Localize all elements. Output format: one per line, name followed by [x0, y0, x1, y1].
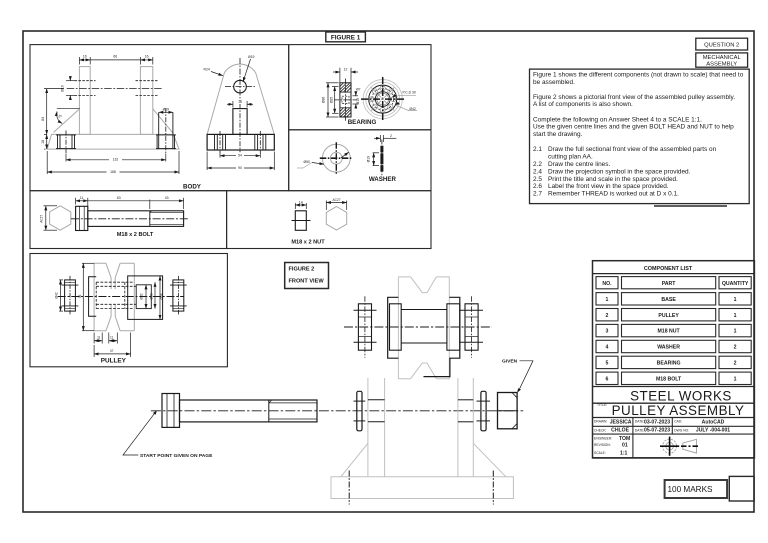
svg-text:01: 01	[622, 442, 628, 448]
svg-text:TITLE:: TITLE:	[597, 403, 607, 407]
svg-text:NO.: NO.	[602, 281, 612, 287]
row 4	[596, 340, 618, 352]
bottom dim 132	[66, 154, 166, 162]
crosshair	[225, 86, 255, 88]
dim 90	[207, 152, 274, 171]
svg-text:START POINT GIVEN ON PAGE: START POINT GIVEN ON PAGE	[140, 453, 213, 459]
svg-text:132: 132	[113, 158, 119, 162]
dia25 dim	[332, 87, 339, 114]
bearing side view outer rect	[340, 83, 351, 117]
post hole lines	[368, 400, 473, 422]
dia42 dim left	[59, 280, 63, 311]
svg-text:2.5: 2.5	[533, 176, 542, 183]
svg-text:P.C.D 30: P.C.D 30	[403, 90, 416, 94]
bolt head side	[76, 206, 88, 230]
main centre line	[151, 410, 523, 412]
row 5	[596, 356, 618, 368]
svg-text:1: 1	[606, 297, 609, 303]
svg-text:PART: PART	[662, 281, 677, 287]
svg-text:Draw the full sectional front: Draw the full sectional front view of th…	[548, 146, 717, 153]
top dims 11 63 43	[76, 198, 184, 209]
svg-text:Draw the centre lines.: Draw the centre lines.	[548, 161, 610, 168]
nut panel	[227, 191, 431, 249]
stray line under panel	[654, 205, 727, 207]
right bearing	[170, 276, 187, 315]
bolt panel	[30, 191, 227, 249]
hole dia dim left of post	[66, 78, 75, 99]
100 marks box	[665, 476, 755, 501]
svg-text:Ø19: Ø19	[248, 55, 255, 59]
right base/gusset hole	[156, 112, 176, 149]
svg-text:2.1: 2.1	[533, 146, 542, 153]
question 2 box	[696, 38, 748, 67]
bearing panel	[289, 45, 431, 130]
svg-text:Ø42: Ø42	[54, 292, 58, 298]
figure 2 label box	[285, 263, 329, 289]
base plate	[331, 477, 513, 499]
svg-text:cutting plan AA.: cutting plan AA.	[548, 154, 593, 161]
svg-text:PULLEY: PULLEY	[658, 313, 679, 319]
body posts grey	[331, 378, 513, 499]
right bearing assembled	[460, 296, 483, 357]
AC27 dim over hexagon	[326, 201, 346, 211]
washer side view bar	[380, 146, 383, 172]
ball dashed box	[342, 96, 349, 103]
svg-text:11: 11	[80, 196, 84, 200]
svg-text:11: 11	[97, 335, 101, 339]
svg-text:14: 14	[299, 200, 303, 204]
svg-text:BODY: BODY	[183, 184, 202, 191]
nut assembled	[498, 393, 518, 429]
hole centre line through posts	[67, 88, 162, 90]
svg-text:M18 x 2 NUT: M18 x 2 NUT	[291, 239, 325, 245]
svg-text:16: 16	[145, 55, 149, 59]
svg-text:Use the given centre lines and: Use the given centre lines and the given…	[533, 124, 734, 131]
hub tube	[401, 309, 447, 311]
svg-text:WASHER: WASHER	[369, 176, 397, 183]
svg-text:A list of components is also s: A list of components is also shown.	[533, 101, 633, 108]
svg-text:2: 2	[734, 361, 737, 367]
row 1	[596, 293, 618, 305]
svg-text:Ø7: Ø7	[356, 88, 361, 92]
dim 96 left of pulley	[82, 263, 94, 330]
svg-text:1: 1	[734, 313, 737, 319]
svg-text:GIVEN: GIVEN	[502, 359, 518, 365]
bolt shaft	[180, 400, 318, 422]
svg-text:4: 4	[606, 345, 609, 351]
bottom V groove	[106, 304, 120, 331]
body front: right gusset (grey)	[153, 109, 174, 134]
washer panel	[289, 130, 431, 191]
svg-text:96: 96	[78, 295, 82, 299]
housing stepped outline black	[388, 297, 399, 358]
svg-text:18: 18	[41, 140, 45, 144]
svg-text:PULLEY ASSEMBLY: PULLEY ASSEMBLY	[612, 403, 745, 418]
body panel	[30, 45, 289, 191]
svg-text:11: 11	[110, 335, 114, 339]
svg-text:R24: R24	[204, 68, 210, 72]
pulley grey outline	[94, 263, 134, 330]
bolt shaft	[88, 211, 184, 227]
svg-text:84: 84	[41, 117, 45, 121]
center lines	[345, 79, 347, 122]
svg-text:03-07-2023: 03-07-2023	[644, 419, 670, 425]
race separators	[340, 91, 351, 93]
svg-text:DWG NO:: DWG NO:	[674, 428, 689, 432]
dia dims in boss	[145, 285, 147, 309]
svg-text:ASSEMBLY: ASSEMBLY	[706, 61, 737, 67]
svg-text:BEARING: BEARING	[348, 119, 377, 126]
left bearing assembled	[354, 296, 377, 357]
svg-text:CAD:: CAD:	[674, 420, 682, 424]
body front: left post (grey)	[79, 67, 90, 135]
nut side view square	[295, 211, 306, 231]
svg-text:TOM: TOM	[619, 436, 630, 442]
svg-text:M18 BOLT: M18 BOLT	[656, 376, 682, 382]
base slants	[341, 443, 368, 476]
svg-text:BASE: BASE	[661, 297, 676, 303]
svg-text:ENGINEER:: ENGINEER:	[594, 437, 612, 441]
svg-text:FRONT VIEW: FRONT VIEW	[289, 279, 325, 285]
row: drawn / date / cad	[594, 420, 689, 455]
row 3	[596, 324, 618, 336]
svg-text:Ø36: Ø36	[322, 97, 326, 104]
bottom dims 11 11 47	[94, 333, 117, 344]
left bearing	[62, 276, 79, 315]
svg-text:SCALE:: SCALE:	[594, 451, 606, 455]
svg-text:BEARING: BEARING	[657, 361, 681, 367]
dim 14	[295, 203, 306, 209]
svg-text:FIGURE 2: FIGURE 2	[289, 267, 315, 273]
svg-text:2.2: 2.2	[533, 161, 542, 168]
hidden hole lines in posts	[75, 81, 158, 96]
lower: bolt head	[162, 394, 180, 428]
body front: left gusset (grey)	[54, 109, 80, 133]
svg-text:JESSICA: JESSICA	[610, 419, 632, 425]
svg-text:3: 3	[606, 329, 609, 335]
svg-text:Complete the following on Answ: Complete the following on Answer Sheet 4…	[533, 116, 702, 123]
projection symbol: cone	[681, 439, 700, 453]
svg-text:Draw the projection symbol in: Draw the projection symbol in the space …	[548, 168, 691, 175]
svg-text:start the drawing.: start the drawing.	[533, 131, 583, 138]
svg-text:90: 90	[238, 166, 242, 170]
bottom dim 168	[47, 151, 179, 174]
hatching top/bottom	[340, 83, 351, 117]
svg-text:Figure 1 shows the different c: Figure 1 shows the different components …	[533, 71, 744, 78]
angle ref line	[57, 108, 80, 110]
thread minor lines	[150, 212, 184, 214]
row 6	[596, 372, 618, 384]
svg-text:2: 2	[390, 134, 392, 138]
svg-text:2: 2	[734, 345, 737, 351]
thread start line	[149, 211, 151, 227]
body front: right post (grey)	[140, 67, 152, 135]
svg-text:2.6: 2.6	[533, 183, 542, 190]
base centre dashes	[348, 471, 350, 505]
svg-text:47: 47	[110, 349, 114, 353]
dim 18 above post	[227, 101, 253, 108]
left base hole	[56, 134, 76, 149]
instruction text panel	[530, 69, 750, 206]
svg-text:16: 16	[83, 55, 87, 59]
nut hexagon (grey)	[326, 207, 346, 231]
pulley wheel grey	[398, 277, 449, 379]
svg-text:WASHER: WASHER	[657, 345, 680, 351]
svg-text:2.7: 2.7	[533, 191, 542, 198]
base hole lines	[215, 134, 266, 150]
svg-text:DRAWN:: DRAWN:	[594, 420, 607, 424]
svg-text:2.4: 2.4	[533, 168, 542, 175]
housing step bracket left	[89, 277, 97, 316]
svg-text:MECHANICAL: MECHANICAL	[703, 55, 742, 61]
body front: base trapezoid (grey)	[47, 134, 179, 149]
svg-text:Label the front view in the sp: Label the front view in the space provid…	[548, 183, 669, 190]
svg-text:5: 5	[606, 361, 609, 367]
svg-text:1: 1	[734, 329, 737, 335]
svg-text:REVISION:: REVISION:	[594, 443, 611, 447]
svg-text:12: 12	[344, 67, 348, 71]
panel labels	[101, 119, 397, 365]
svg-text:168: 168	[110, 170, 116, 174]
svg-text:75: 75	[57, 114, 62, 119]
svg-text:Ø25: Ø25	[330, 97, 334, 104]
washer front view circles	[322, 144, 350, 172]
panel frames	[30, 45, 431, 367]
svg-text:1: 1	[734, 297, 737, 303]
svg-text:PULLEY: PULLEY	[101, 358, 127, 365]
dia19 left bracket	[373, 153, 379, 166]
bearing front view	[363, 80, 402, 119]
flanges	[390, 304, 402, 350]
title block	[593, 387, 755, 458]
svg-text:63: 63	[117, 196, 121, 200]
dim 54	[220, 154, 260, 158]
figure 1 label box	[326, 32, 366, 42]
centre line	[58, 296, 184, 298]
svg-text:Ø42: Ø42	[409, 107, 416, 111]
svg-text:STEEL WORKS: STEEL WORKS	[630, 389, 732, 404]
header cells	[596, 277, 618, 289]
svg-text:1:1: 1:1	[620, 450, 628, 456]
svg-text:CHECK:: CHECK:	[594, 428, 607, 432]
AC27 dim	[44, 206, 58, 230]
svg-text:Remember THREAD is worked out: Remember THREAD is worked out at D x 0.1…	[548, 191, 679, 198]
svg-text:M18 NUT: M18 NUT	[657, 329, 680, 335]
body side: post	[233, 109, 247, 135]
svg-text:6: 6	[606, 376, 609, 382]
svg-text:Ø50: Ø50	[304, 160, 311, 164]
svg-text:54: 54	[238, 153, 242, 157]
svg-text:2: 2	[606, 313, 609, 319]
dim 12 top	[333, 68, 358, 84]
top dimension 16 66 16	[79, 57, 152, 65]
row 2	[596, 309, 618, 321]
svg-text:M18 x 2 BOLT: M18 x 2 BOLT	[117, 232, 154, 238]
svg-text:AutoCAD: AutoCAD	[702, 419, 725, 425]
centre line	[71, 218, 189, 220]
svg-text:AC27: AC27	[40, 215, 44, 223]
svg-text:QUANTITY: QUANTITY	[722, 281, 749, 287]
svg-text:COMPONENT LIST: COMPONENT LIST	[644, 266, 693, 272]
svg-text:Ø19: Ø19	[366, 156, 370, 163]
svg-text:18: 18	[238, 100, 242, 104]
svg-text:be assembled.: be assembled.	[533, 79, 575, 86]
washers lower	[354, 391, 366, 431]
svg-text:Ø19: Ø19	[163, 107, 170, 111]
svg-text:05-07-2023: 05-07-2023	[644, 428, 670, 434]
svg-text:Print the title and scale in t: Print the title and scale in the space p…	[548, 176, 678, 183]
bolt head end view hexagon (grey)	[50, 206, 71, 230]
pulley panel	[30, 254, 227, 367]
bore dashed lines	[96, 282, 136, 308]
svg-text:JULY -004-001: JULY -004-001	[696, 428, 730, 434]
dim 2 top	[374, 135, 396, 142]
svg-text:Ø19: Ø19	[356, 98, 360, 105]
projection symbol: crosshair circle	[660, 437, 679, 456]
svg-text:43: 43	[165, 196, 169, 200]
angle arc with arrows	[57, 112, 62, 124]
left dim 84 and 18	[44, 89, 64, 150]
svg-text:AC27: AC27	[333, 198, 341, 202]
top V groove	[106, 263, 120, 289]
body side: hole circle	[234, 80, 247, 93]
svg-text:FIGURE 1: FIGURE 1	[331, 35, 361, 42]
body side: dome outline (grey)	[207, 64, 274, 134]
body side: base	[207, 134, 274, 150]
svg-text:66: 66	[113, 55, 117, 59]
dia36 dim	[326, 83, 339, 117]
assembly centre line	[344, 326, 492, 328]
svg-text:100 MARKS: 100 MARKS	[667, 485, 713, 494]
boss solid rect	[128, 276, 163, 320]
svg-text:1: 1	[734, 376, 737, 382]
svg-text:QUESTION 2: QUESTION 2	[704, 42, 739, 48]
svg-text:CHLOE: CHLOE	[611, 428, 629, 434]
inner circle arrow	[341, 152, 349, 158]
dia7 dim	[353, 92, 359, 108]
svg-text:Figure 2 shows a pictorial fro: Figure 2 shows a pictorial front view of…	[533, 94, 735, 101]
